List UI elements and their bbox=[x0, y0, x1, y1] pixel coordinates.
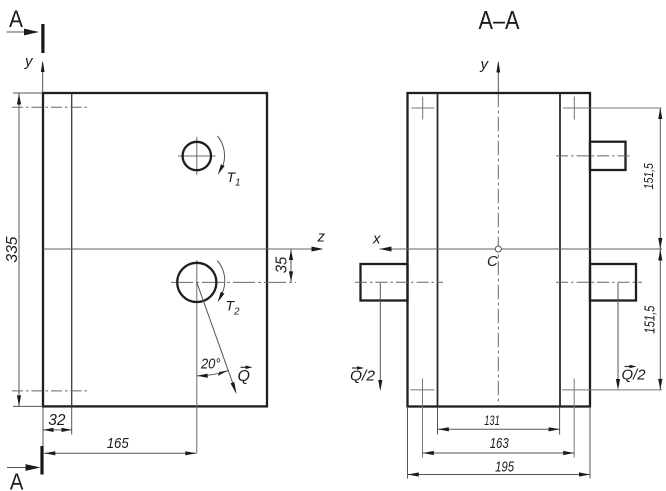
angle arc 20 bbox=[197, 370, 229, 376]
bolt cross bottom-left bbox=[411, 389, 435, 391]
dim 335 extension top bbox=[13, 92, 43, 94]
force Q/2 left vector bar bbox=[352, 367, 361, 369]
svg-text:35: 35 bbox=[274, 257, 291, 274]
hole 2 circle bbox=[177, 263, 216, 302]
axis x arrow bbox=[380, 247, 392, 252]
dim 195 line bbox=[408, 474, 591, 476]
dim 35 line bbox=[290, 250, 292, 282]
force Q/2 right line bbox=[617, 283, 619, 387]
dim 335 line bbox=[18, 94, 20, 407]
hole 1 circle bbox=[183, 142, 211, 170]
dim 32 line bbox=[43, 429, 72, 431]
svg-text:A: A bbox=[10, 469, 24, 491]
centroid C point bbox=[495, 246, 501, 252]
dim 151.5 bottom line bbox=[659, 249, 661, 390]
section marker A top thick line bbox=[41, 24, 44, 53]
svg-text:195: 195 bbox=[495, 459, 514, 476]
axis z line bbox=[43, 248, 318, 250]
dim 195 extension left bbox=[407, 408, 409, 479]
axis y arrow (section view) bbox=[497, 63, 499, 93]
bolt centerline bottom (front view) bbox=[12, 390, 89, 392]
bolt cross bottom-right bbox=[562, 389, 662, 391]
svg-text:x: x bbox=[372, 231, 381, 248]
svg-text:A–A: A–A bbox=[479, 5, 521, 35]
svg-text:2: 2 bbox=[233, 307, 240, 318]
shaft bottom-left centerline bbox=[355, 281, 443, 283]
shaft bottom-right bbox=[590, 264, 636, 301]
force Q vector bar bbox=[241, 366, 251, 368]
section body outline bbox=[408, 93, 591, 407]
svg-text:z: z bbox=[317, 229, 326, 246]
shaft top-right bbox=[590, 142, 626, 170]
svg-text:20°: 20° bbox=[200, 356, 220, 373]
dim 163 line bbox=[423, 452, 575, 454]
svg-text:Q/2: Q/2 bbox=[622, 367, 647, 384]
dim 165 line bbox=[44, 452, 196, 454]
svg-text:A: A bbox=[9, 6, 23, 33]
section marker A bottom arrow bbox=[7, 467, 26, 469]
axis x line bbox=[380, 248, 663, 250]
shaft top-right centerline bbox=[556, 155, 633, 157]
force Q/2 left line bbox=[379, 283, 381, 388]
force Q/2 right vector bar bbox=[625, 366, 634, 368]
axis z arrow bbox=[312, 247, 324, 252]
dim 32 extension left bbox=[42, 408, 44, 447]
bolt cross top-right bbox=[563, 107, 662, 109]
bolt cross top-left bbox=[412, 107, 435, 109]
torque arc T1 bbox=[218, 136, 225, 169]
svg-text:151,5: 151,5 bbox=[641, 163, 656, 190]
dim 131 extension right bbox=[559, 408, 561, 435]
plate inner edge line bbox=[71, 93, 73, 406]
hole 2 crosshair bbox=[171, 281, 296, 283]
svg-text:1: 1 bbox=[235, 178, 241, 189]
dim 131 line bbox=[438, 428, 560, 430]
svg-text:131: 131 bbox=[484, 412, 500, 428]
shaft bottom-right centerline bbox=[556, 281, 642, 283]
dim 32 extension right bbox=[71, 408, 73, 435]
section inner line left bbox=[437, 93, 439, 407]
section inner line right bbox=[559, 93, 561, 407]
plate outline (front view) bbox=[43, 93, 267, 406]
shaft bottom-left bbox=[361, 264, 408, 301]
svg-text:Q: Q bbox=[238, 368, 250, 385]
dim 195 extension right bbox=[589, 408, 591, 479]
svg-text:32: 32 bbox=[48, 412, 65, 429]
bolt centerline top (front view) bbox=[12, 106, 89, 108]
dim 335 extension bottom bbox=[13, 405, 43, 407]
svg-text:C: C bbox=[487, 253, 498, 270]
svg-text:151,5: 151,5 bbox=[641, 305, 658, 333]
section marker A top arrow bbox=[7, 31, 26, 33]
axis y arrow (left view) bbox=[42, 63, 44, 93]
force Q line bbox=[197, 282, 235, 389]
section marker A bottom thick line bbox=[40, 446, 43, 475]
svg-text:163: 163 bbox=[490, 435, 509, 452]
hole 1 crosshair bbox=[178, 155, 216, 157]
centerline y (section view) bbox=[497, 93, 499, 407]
svg-text:335: 335 bbox=[4, 237, 21, 263]
svg-text:165: 165 bbox=[107, 435, 130, 452]
svg-text:Q/2: Q/2 bbox=[350, 368, 376, 385]
torque arc T2 bbox=[217, 261, 225, 295]
dim 151.5 top line bbox=[659, 108, 661, 249]
dim 131 extension left bbox=[437, 408, 439, 435]
